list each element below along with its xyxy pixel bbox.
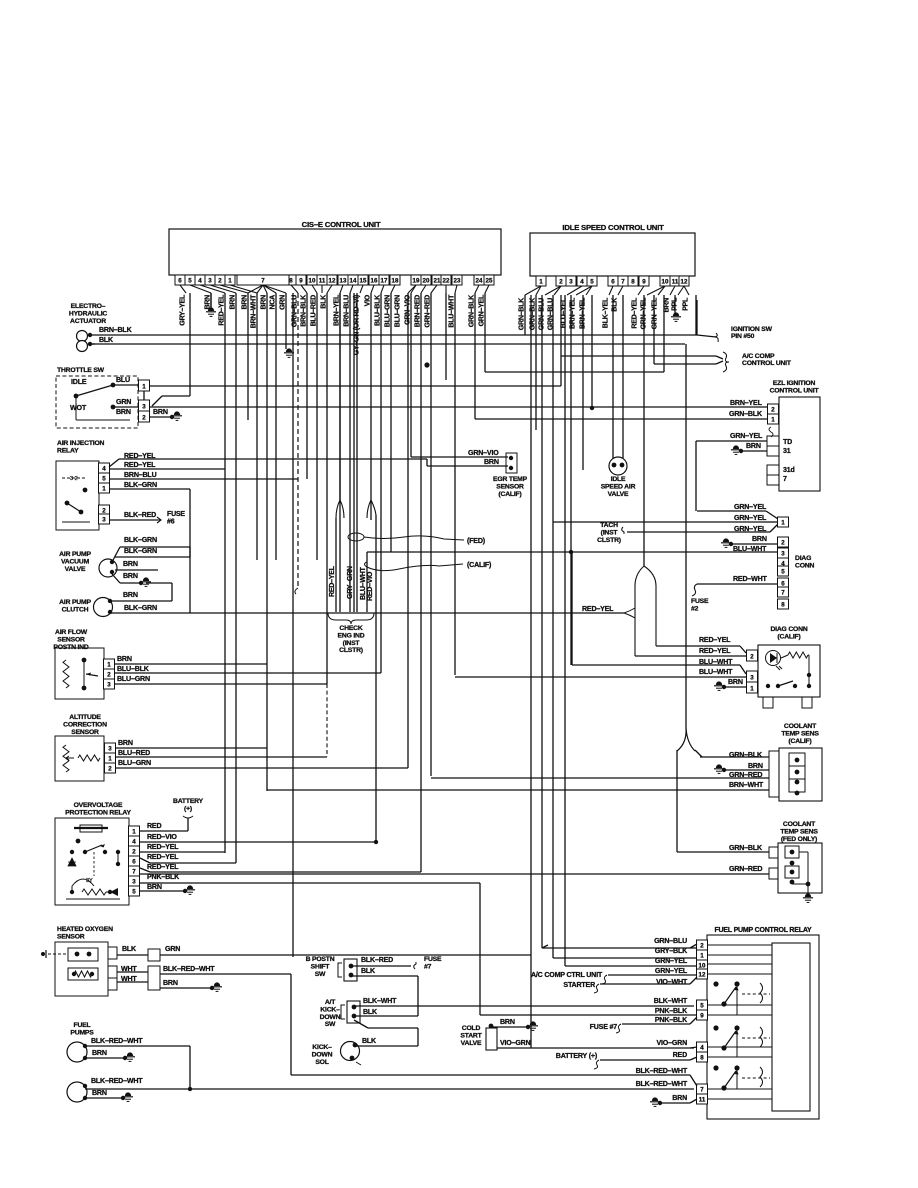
svg-text:20: 20 bbox=[423, 278, 430, 285]
wire BLU-WHT down bbox=[366, 552, 368, 612]
CIS-E pin 10 bbox=[307, 275, 317, 285]
wire RED-YEL bbox=[150, 871, 421, 873]
svg-text:BRN: BRN bbox=[240, 295, 248, 310]
wire BLK-GRN bbox=[120, 546, 190, 548]
svg-text:12: 12 bbox=[329, 278, 336, 285]
wire bbox=[766, 521, 778, 523]
altitude sensor arrow bbox=[66, 756, 74, 760]
wire BRN bbox=[140, 890, 185, 892]
wire bbox=[140, 868, 150, 872]
svg-text:RED–WHT: RED–WHT bbox=[733, 575, 768, 583]
CIS-E pin 15 bbox=[358, 275, 368, 285]
wire x248 bbox=[247, 293, 249, 420]
svg-text:BLK–RED–WHT: BLK–RED–WHT bbox=[163, 965, 215, 973]
svg-text:IDLE: IDLE bbox=[71, 378, 87, 386]
svg-text:CIS–E CONTROL UNIT: CIS–E CONTROL UNIT bbox=[302, 220, 381, 229]
label A/T KICK-DOWN SW bbox=[320, 999, 341, 1028]
svg-text:RED–YEL: RED–YEL bbox=[630, 297, 638, 329]
svg-text:CLSTR): CLSTR) bbox=[597, 537, 621, 544]
wire to ignition bbox=[697, 335, 716, 337]
svg-text:1: 1 bbox=[700, 953, 704, 960]
idle-speed pin 7 bbox=[618, 276, 628, 286]
air inj relay pin 1 bbox=[99, 483, 110, 493]
relay contact group 3 bbox=[713, 1065, 770, 1090]
air inj relay pin 3 bbox=[99, 514, 110, 524]
svg-text:BLU–GRN: BLU–GRN bbox=[383, 295, 391, 327]
wire x267 bbox=[266, 293, 268, 791]
wire BRN-BLK actuator bbox=[90, 334, 526, 336]
junction bbox=[139, 581, 143, 585]
coolant calif inner bbox=[789, 753, 805, 795]
altitude correction sensor box bbox=[55, 736, 104, 781]
ground bbox=[721, 538, 731, 547]
wire bbox=[770, 524, 778, 532]
wire RED bbox=[600, 1059, 690, 1061]
svg-text:BLK: BLK bbox=[363, 1008, 378, 1016]
wire bbox=[407, 293, 409, 768]
wire x340 bbox=[339, 293, 341, 612]
wire WHT bbox=[117, 971, 148, 973]
wire x592 bbox=[591, 295, 593, 408]
svg-text:4: 4 bbox=[580, 279, 584, 286]
svg-text:BLK–RED: BLK–RED bbox=[124, 511, 156, 519]
diag calif inner wiring bbox=[766, 655, 811, 688]
svg-text:POSTN IND: POSTN IND bbox=[53, 644, 88, 651]
svg-text:RED–YEL: RED–YEL bbox=[699, 636, 731, 644]
wire BRN bbox=[116, 747, 267, 749]
junction bbox=[658, 1101, 662, 1105]
ground bbox=[123, 1092, 133, 1101]
junction bbox=[722, 685, 726, 689]
overvoltage pin 6 bbox=[129, 856, 140, 866]
ground bbox=[528, 1021, 538, 1030]
wire BRN bbox=[110, 600, 172, 602]
wire GRN-BLK bbox=[475, 418, 767, 420]
wire BLU bbox=[150, 385, 561, 387]
svg-text:EZL IGNITION: EZL IGNITION bbox=[773, 380, 816, 387]
CIS-E pin 21 bbox=[432, 275, 442, 285]
svg-text:(+): (+) bbox=[184, 805, 192, 812]
wire RED-VIO bbox=[140, 841, 376, 843]
svg-text:VIO–GRN: VIO–GRN bbox=[656, 1039, 687, 1047]
wire bbox=[339, 293, 341, 500]
label FUSE #6 bbox=[167, 511, 185, 526]
svg-text:7: 7 bbox=[132, 869, 136, 876]
wire PNK-BLK2 bbox=[622, 1023, 690, 1025]
CIS-E pin 1 bbox=[225, 275, 235, 285]
svg-text:BRN: BRN bbox=[163, 979, 178, 987]
svg-text:GRN–YEL: GRN–YEL bbox=[655, 967, 688, 975]
EZL squiggle bbox=[769, 427, 773, 437]
GRN-BLK split funnel bbox=[677, 728, 686, 751]
wire PNK-BLK bbox=[480, 1014, 697, 1016]
svg-text:BLK–RED–WHT: BLK–RED–WHT bbox=[636, 1080, 688, 1088]
svg-text:SW: SW bbox=[325, 1021, 336, 1028]
svg-text:BLU–RED: BLU–RED bbox=[118, 749, 150, 757]
wire BLK-WHT long bbox=[354, 1005, 694, 1007]
wire GRN-YEL long bbox=[553, 521, 766, 523]
svg-text:3: 3 bbox=[102, 517, 106, 524]
wire bbox=[112, 547, 120, 562]
CIS-E pin 9 bbox=[296, 275, 306, 285]
svg-text:BRN: BRN bbox=[752, 535, 767, 543]
svg-text:VALVE: VALVE bbox=[608, 491, 629, 498]
coolant temp sens calif box bbox=[779, 748, 822, 801]
CIS-E pin 4 bbox=[195, 275, 205, 285]
svg-text:SENSOR: SENSOR bbox=[496, 483, 524, 490]
svg-text:3: 3 bbox=[781, 551, 785, 558]
wire bbox=[189, 1046, 191, 1089]
svg-text:16: 16 bbox=[371, 278, 378, 285]
wire BLU-WHT bbox=[572, 664, 740, 666]
svg-text:2: 2 bbox=[700, 943, 704, 950]
svg-text:BLU: BLU bbox=[116, 376, 130, 384]
svg-text:14: 14 bbox=[350, 278, 357, 285]
svg-text:SENSOR: SENSOR bbox=[57, 933, 85, 940]
resistor heater bbox=[74, 971, 92, 977]
inline connector bbox=[148, 966, 160, 990]
junction bbox=[722, 768, 726, 772]
svg-text:BLK–GRN: BLK–GRN bbox=[124, 547, 157, 555]
svg-text:3: 3 bbox=[569, 279, 573, 286]
ground bbox=[185, 885, 195, 894]
wire bbox=[526, 334, 697, 336]
wire bbox=[152, 396, 162, 406]
svg-text:SW: SW bbox=[315, 971, 326, 978]
electro-hydraulic actuator bbox=[77, 331, 93, 352]
svg-text:BRN: BRN bbox=[228, 295, 236, 310]
heated oxygen sensor box bbox=[55, 942, 108, 996]
wire BLK-RED-WHT bbox=[160, 973, 291, 975]
svg-text:BLK: BLK bbox=[362, 1037, 377, 1045]
CIS-E pin 25 bbox=[484, 275, 494, 285]
wire x696 bbox=[695, 295, 697, 335]
wire bbox=[690, 1099, 697, 1103]
CIS-E pin fan-out slants bbox=[180, 285, 489, 293]
wire GRN-YEL tach bbox=[627, 531, 770, 533]
svg-text:1: 1 bbox=[539, 279, 543, 286]
svg-text:SHIFT: SHIFT bbox=[311, 963, 331, 970]
svg-text:BRN: BRN bbox=[259, 295, 267, 310]
svg-text:RED–YEL: RED–YEL bbox=[217, 294, 225, 326]
B postn shift sw connector bbox=[338, 959, 357, 981]
wire x211 bbox=[210, 293, 212, 309]
CIS-E pin 11 bbox=[317, 275, 327, 285]
svg-text:FUSE: FUSE bbox=[424, 956, 442, 963]
wire bbox=[695, 750, 702, 757]
idle-speed pin 11 bbox=[670, 276, 680, 286]
wire x565 bbox=[564, 295, 566, 966]
throttle switch box bbox=[56, 376, 138, 428]
ground idle BRN bbox=[671, 312, 681, 321]
EZL pin 1 bbox=[768, 414, 779, 424]
wire BLU-GRN bbox=[115, 683, 327, 685]
svg-text:15: 15 bbox=[360, 278, 367, 285]
svg-text:BRN–WHT: BRN–WHT bbox=[249, 294, 257, 328]
svg-text:BATTERY: BATTERY bbox=[173, 798, 204, 805]
EGR temp sensor connector bbox=[506, 453, 517, 473]
svg-text:GRN: GRN bbox=[278, 295, 286, 310]
wire BLK bbox=[354, 1015, 418, 1017]
svg-text:GRN–BLU: GRN–BLU bbox=[654, 937, 687, 945]
svg-text:7: 7 bbox=[621, 279, 625, 286]
diag conn pin 8 bbox=[778, 599, 789, 609]
altitude pin 3 bbox=[105, 743, 116, 753]
fuel relay pin 11 bbox=[697, 1094, 708, 1104]
svg-text:BLK–WHT: BLK–WHT bbox=[363, 997, 397, 1005]
altitude pin 1 bbox=[105, 753, 116, 763]
svg-text:RED–VIO: RED–VIO bbox=[147, 833, 177, 841]
svg-text:8: 8 bbox=[289, 278, 293, 285]
label HEATED OXYGEN SENSOR bbox=[57, 926, 113, 940]
label THROTTLE SW bbox=[57, 367, 105, 374]
svg-text:GRN–BLK: GRN–BLK bbox=[467, 294, 475, 327]
svg-text:8: 8 bbox=[781, 602, 785, 609]
svg-text:TD: TD bbox=[783, 438, 792, 446]
A/T kick-down sw connector bbox=[341, 1001, 360, 1023]
label OVERVOLTAGE PROTECTION RELAY bbox=[65, 802, 131, 816]
svg-text:(INST: (INST bbox=[343, 640, 361, 647]
svg-text:3Y: 3Y bbox=[86, 878, 93, 884]
wire GRN-YEL bbox=[565, 965, 697, 967]
svg-text:7: 7 bbox=[261, 278, 265, 285]
wire GRN-YEL bbox=[608, 974, 697, 976]
wire bbox=[417, 1028, 419, 1046]
svg-text:BLK–YEL: BLK–YEL bbox=[601, 297, 609, 328]
svg-text:ELECTRO–: ELECTRO– bbox=[71, 303, 106, 310]
CIS-E pin 13 bbox=[338, 275, 348, 285]
svg-text:6: 6 bbox=[132, 859, 136, 866]
ground bbox=[141, 577, 151, 586]
svg-text:DOWN: DOWN bbox=[312, 1051, 333, 1058]
svg-text:5: 5 bbox=[781, 569, 785, 576]
label AIR PUMP CLUTCH bbox=[59, 599, 91, 613]
svg-text:EGR TEMP: EGR TEMP bbox=[493, 476, 528, 483]
wire BRN bbox=[731, 543, 778, 545]
overvoltage pin 3 bbox=[129, 876, 140, 886]
label IGNITION SW PIN #50 bbox=[731, 326, 773, 340]
diag conn pin 1 bbox=[778, 517, 789, 527]
svg-text:BRN: BRN bbox=[746, 442, 761, 450]
wire PPL bbox=[696, 300, 698, 335]
wire WHT bbox=[117, 981, 148, 983]
svg-text:CONN: CONN bbox=[795, 562, 815, 569]
svg-text:1: 1 bbox=[107, 662, 111, 669]
svg-text:2: 2 bbox=[559, 279, 563, 286]
idle pin fan-out slants bbox=[525, 286, 689, 295]
relay pin stub lines bbox=[708, 945, 772, 1099]
wire x421 bbox=[420, 293, 422, 872]
wire GRN-RED long bbox=[139, 873, 769, 875]
label A/C COMP CONTROL UNIT bbox=[742, 353, 792, 367]
fuel relay pin 7 bbox=[697, 1084, 708, 1094]
svg-text:18: 18 bbox=[392, 278, 399, 285]
wire BRN bbox=[210, 293, 212, 309]
svg-text:RED–YEL: RED–YEL bbox=[124, 461, 156, 469]
svg-text:7: 7 bbox=[783, 475, 787, 483]
svg-text:SOL: SOL bbox=[315, 1059, 328, 1066]
diag conn pin 3 bbox=[778, 548, 789, 558]
junction bbox=[188, 1087, 192, 1091]
svg-text:CLSTR): CLSTR) bbox=[339, 647, 363, 654]
svg-text:4: 4 bbox=[102, 466, 106, 473]
svg-text:BLU–BLK: BLU–BLK bbox=[117, 665, 150, 673]
O2 sensor pin stubs bbox=[108, 947, 117, 959]
wire GRN-BLU bbox=[542, 947, 697, 949]
svg-text:A/T: A/T bbox=[325, 999, 336, 1006]
wavy wire to (CALIF) bbox=[365, 562, 464, 571]
svg-text:11: 11 bbox=[699, 1097, 706, 1104]
LED bbox=[766, 651, 783, 671]
diag conn pin 6 bbox=[778, 578, 789, 588]
label COOLANT TEMP SENS (FED ONLY) bbox=[780, 821, 818, 843]
svg-text:(FED ONLY): (FED ONLY) bbox=[781, 836, 817, 843]
label AIR FLOW SENSOR POSTN IND bbox=[53, 629, 88, 651]
air flow pin 1 bbox=[104, 659, 115, 669]
junction BLU-WHT bbox=[569, 550, 573, 554]
svg-text:RED: RED bbox=[147, 822, 161, 830]
ground bbox=[650, 1097, 660, 1106]
svg-text:CHECK: CHECK bbox=[339, 625, 362, 632]
svg-text:RELAY: RELAY bbox=[57, 447, 79, 454]
ground bbox=[212, 982, 222, 991]
svg-text:GRN: GRN bbox=[116, 398, 131, 406]
wire x686 bbox=[685, 344, 687, 728]
idle-speed pin 3 bbox=[566, 276, 576, 286]
svg-text:RED–YEL: RED–YEL bbox=[147, 843, 179, 851]
svg-text:25: 25 bbox=[486, 278, 493, 285]
svg-text:VACUUM: VACUUM bbox=[61, 558, 90, 565]
svg-text:10: 10 bbox=[662, 279, 669, 286]
svg-text:PNK–BLK: PNK–BLK bbox=[655, 1007, 688, 1015]
svg-text:3: 3 bbox=[142, 404, 146, 411]
svg-text:FUEL: FUEL bbox=[74, 1022, 91, 1029]
junction bbox=[729, 542, 733, 546]
label BATTERY (+) bbox=[173, 798, 204, 812]
overvoltage relay coil arc bbox=[72, 879, 94, 886]
label AIR PUMP VACUUM VALVE bbox=[59, 551, 91, 573]
diag conn calif box bbox=[758, 645, 820, 697]
label COOLANT TEMP SENS (CALIF) bbox=[781, 723, 819, 745]
wire GRN-VIO bbox=[411, 456, 508, 458]
svg-text:GRN–BLU: GRN–BLU bbox=[290, 295, 298, 327]
overvoltage pin 1 bbox=[129, 826, 140, 836]
label ALTITUDE CORRECTION SENSOR bbox=[63, 714, 107, 736]
wire x431 bbox=[430, 293, 432, 776]
ground bbox=[172, 411, 182, 420]
svg-text:GRY–YEL: GRY–YEL bbox=[178, 294, 186, 326]
wire PNK-BLK vertical bbox=[479, 883, 481, 1015]
diag conn pin 4 bbox=[778, 558, 789, 568]
svg-text:BLK: BLK bbox=[99, 336, 114, 344]
label EGR TEMP SENSOR (CALIF) bbox=[493, 476, 528, 498]
wire x455 bbox=[454, 293, 456, 675]
idle-speed pin 10 bbox=[660, 276, 670, 286]
air injection relay box bbox=[56, 461, 99, 530]
wire BLK-RED-WHT bbox=[85, 1045, 190, 1047]
wire BLK bbox=[351, 975, 418, 977]
wire bbox=[354, 1020, 368, 1028]
wire x391 bbox=[390, 293, 392, 552]
EZL ignition control unit box bbox=[779, 397, 820, 491]
wire GRN-BLK bbox=[677, 851, 769, 853]
wire VIO-GRN long bbox=[497, 1047, 694, 1049]
resistor bbox=[82, 889, 106, 895]
svg-text:BRN: BRN bbox=[728, 678, 743, 686]
idle-speed pin 9 bbox=[639, 276, 649, 286]
wire x654 bbox=[653, 295, 655, 364]
svg-text:GRN–VIO: GRN–VIO bbox=[468, 449, 499, 457]
svg-text:RED–YEL: RED–YEL bbox=[699, 647, 731, 655]
svg-text:BLU–WHT: BLU–WHT bbox=[699, 668, 733, 676]
svg-text:GRN: GRN bbox=[165, 945, 180, 953]
wire bbox=[654, 363, 716, 365]
wire BLK bbox=[117, 954, 148, 956]
svg-text:FUSE: FUSE bbox=[691, 598, 709, 605]
svg-text:1: 1 bbox=[142, 384, 146, 391]
svg-text:BLU–GRN: BLU–GRN bbox=[117, 675, 150, 683]
squiggle bbox=[594, 984, 599, 993]
svg-text:BRN: BRN bbox=[147, 883, 162, 891]
squiggle bbox=[594, 1060, 599, 1069]
label B POSTN SHIFT SW bbox=[306, 956, 335, 978]
CIS-E pin 14 bbox=[348, 275, 358, 285]
svg-text:AIR PUMP: AIR PUMP bbox=[59, 551, 91, 558]
svg-text:5: 5 bbox=[590, 279, 594, 286]
CIS-E pin 19 bbox=[411, 275, 421, 285]
ground bbox=[714, 681, 724, 690]
throttle switch contacts bbox=[74, 383, 130, 420]
svg-text:BRN–BLU: BRN–BLU bbox=[342, 295, 350, 327]
wire BLK-GRN2 bbox=[115, 556, 190, 558]
wire BLK bbox=[355, 1045, 418, 1047]
wire bbox=[140, 858, 150, 863]
svg-text:BRN: BRN bbox=[672, 1094, 687, 1102]
svg-text:5: 5 bbox=[700, 1003, 704, 1010]
junction RED-VIO bbox=[374, 840, 378, 844]
svg-text:CONTROL UNIT: CONTROL UNIT bbox=[770, 387, 820, 394]
junction bbox=[170, 415, 174, 419]
svg-text:HEATED OXYGEN: HEATED OXYGEN bbox=[57, 926, 113, 933]
svg-text:GRN–BLK: GRN–BLK bbox=[729, 751, 763, 759]
wire x286 bbox=[285, 293, 287, 349]
label EZL IGNITION CONTROL UNIT bbox=[770, 380, 820, 394]
svg-text:BRN: BRN bbox=[116, 408, 131, 416]
wire x475 bbox=[474, 293, 476, 419]
wire RED-YEL bbox=[656, 645, 740, 647]
svg-text:GRN–BLK: GRN–BLK bbox=[729, 410, 763, 418]
wire long to funnel bbox=[190, 612, 624, 614]
wire bbox=[690, 1047, 697, 1048]
svg-text:PIN #50: PIN #50 bbox=[731, 333, 755, 340]
svg-text:1: 1 bbox=[228, 278, 232, 285]
overvoltage pin 7 bbox=[129, 866, 140, 876]
label ELECTRO-HYDRAULIC ACTUATOR bbox=[69, 303, 108, 325]
wire BRN bbox=[120, 582, 141, 584]
svg-text:STARTER: STARTER bbox=[563, 981, 595, 989]
svg-text:BLK: BLK bbox=[319, 294, 327, 309]
svg-text:PUMPS: PUMPS bbox=[70, 1029, 94, 1036]
relay contact group 1 bbox=[713, 981, 770, 1006]
relay contact group 2 bbox=[713, 1025, 770, 1050]
junction bbox=[739, 449, 743, 453]
svg-text:BRN: BRN bbox=[92, 1089, 107, 1097]
svg-text:PPL: PPL bbox=[681, 297, 689, 311]
svg-text:RED–YEL: RED–YEL bbox=[147, 863, 179, 871]
coolant temp sens fed box bbox=[778, 843, 822, 893]
svg-text:ACTUATOR: ACTUATOR bbox=[70, 318, 106, 325]
fuse arrow bbox=[152, 517, 161, 523]
